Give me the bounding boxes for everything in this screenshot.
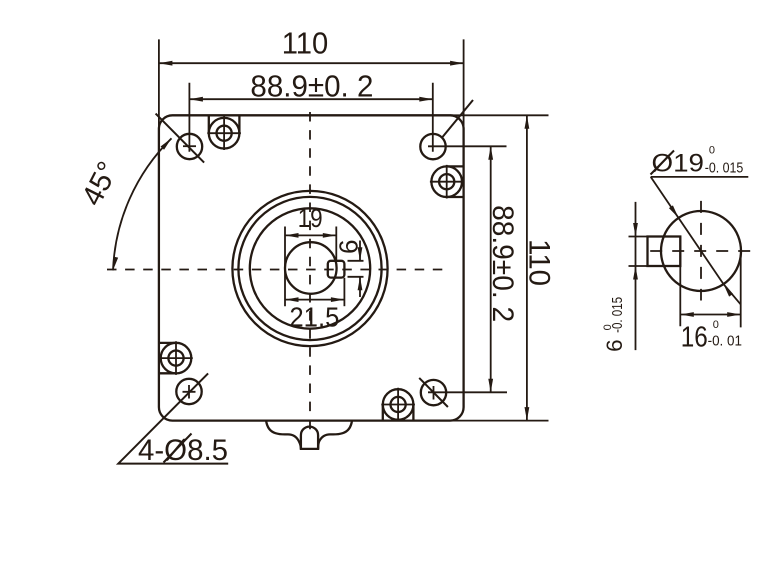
dimension 19: extension lines — [285, 227, 336, 307]
screw hole BR tangent lines — [383, 405, 414, 421]
side view vertical dashed centerline — [700, 201, 702, 301]
dimension 16: extension lines — [680, 237, 740, 328]
pilot boss outer circle — [232, 191, 387, 346]
screw hole TL outer — [209, 118, 240, 149]
bolt hole BR slash — [419, 378, 448, 407]
dimension 21.5: line — [285, 299, 344, 301]
dimension 88.9 right: extension lines through holes — [428, 146, 507, 392]
side view shaft circle — [661, 211, 741, 291]
bottom tab left wing — [266, 421, 301, 449]
svg-text:110: 110 — [282, 26, 329, 61]
bolt hole BR — [421, 380, 446, 405]
svg-text:110: 110 — [523, 239, 556, 286]
slash overlay on 0 of 4-08.5 — [164, 434, 192, 463]
svg-text:88.9±0. 2: 88.9±0. 2 — [250, 70, 373, 104]
dimension 88.9 right: line — [490, 146, 492, 392]
svg-text:16: 16 — [681, 322, 708, 354]
svg-text:21.5: 21.5 — [289, 302, 339, 333]
dia 19 text underline — [651, 176, 749, 178]
screw hole BL cross — [159, 341, 193, 375]
pilot boss second circle — [238, 197, 381, 340]
svg-text:0: 0 — [709, 144, 715, 156]
bottom tab finger — [301, 427, 318, 449]
screw hole TR outer — [431, 166, 462, 197]
screw hole TL inner — [217, 126, 232, 141]
svg-text:19: 19 — [298, 205, 323, 233]
svg-text:88.9±0. 2: 88.9±0. 2 — [486, 205, 519, 322]
dia 19 leader and diameter line — [651, 177, 741, 305]
screw hole TL tangent lines — [209, 115, 240, 133]
bolt hole TR — [420, 134, 445, 159]
bolt hole BR vertical bar — [433, 386, 435, 400]
text 88.9 right — [486, 205, 519, 322]
dimension 21.5: extension line right — [343, 278, 345, 306]
screw hole TR cross — [430, 165, 464, 199]
screw hole TR tangent lines — [447, 166, 464, 197]
screw hole BL tangent lines — [159, 343, 176, 373]
shaft circle — [285, 242, 337, 294]
keyway slot — [328, 261, 345, 278]
svg-text:-0. 015: -0. 015 — [610, 297, 626, 333]
screw hole TL cross — [207, 116, 241, 150]
bolt hole TL slash — [156, 114, 205, 163]
pilot bore circle — [250, 208, 370, 328]
dimension 110 top: extension lines — [159, 39, 464, 129]
svg-text:4-Ø8.5: 4-Ø8.5 — [138, 434, 228, 467]
dimension 110 right: extension lines — [450, 115, 549, 420]
dimension 6 keyway: extension ticks — [348, 261, 364, 277]
dimension 45 deg arc — [113, 138, 172, 270]
bolt hole TR slash — [442, 100, 473, 138]
screw hole TR inner — [439, 174, 454, 189]
screw hole BR cross — [381, 388, 415, 422]
text 110 right — [523, 239, 556, 286]
dimension 6 side: line — [635, 202, 637, 350]
text 45 deg — [75, 156, 125, 211]
dimension 110 top: line — [159, 62, 464, 64]
side view key rect — [648, 237, 681, 267]
screw hole BL inner — [168, 351, 183, 366]
side view horizontal dashed centerline — [650, 250, 752, 252]
dimension 110 right: line — [526, 115, 528, 420]
svg-text:Ø19: Ø19 — [652, 150, 705, 178]
dimension 6 keyway: arrow lines — [359, 241, 361, 298]
dimension 88.9 top: extension lines through holes — [189, 83, 432, 152]
bolt hole BL slash + leader to 4-08.5 text — [118, 373, 228, 463]
bolt hole BL — [176, 379, 201, 404]
bolt hole TL cross bar — [183, 145, 196, 147]
dimension 88.9 top: line — [189, 98, 432, 100]
dimension 16: line — [680, 314, 740, 316]
svg-text:6: 6 — [333, 240, 363, 254]
svg-text:0: 0 — [713, 319, 719, 331]
slash overlay on dia symbol — [651, 151, 675, 175]
svg-text:-0. 015: -0. 015 — [705, 160, 744, 176]
svg-text:-0. 01: -0. 01 — [708, 334, 742, 350]
plate horizontal dashed centerline — [107, 269, 445, 271]
flange plate outline — [159, 115, 464, 420]
svg-text:45°: 45° — [75, 156, 125, 211]
text 6 side with tolerance — [602, 297, 627, 352]
screw hole BR inner — [391, 397, 406, 412]
svg-text:6: 6 — [602, 339, 627, 352]
bottom tab right wing — [318, 421, 352, 449]
screw hole BR outer — [383, 389, 414, 420]
dimension 6 side: extension ticks — [629, 237, 648, 267]
plate vertical dashed centerline — [309, 112, 311, 434]
screw hole BL outer — [161, 343, 192, 374]
dimension 19: line — [285, 234, 336, 236]
bolt hole BL cross — [183, 385, 196, 399]
bolt hole TL — [177, 134, 202, 159]
text 6 keyway — [333, 240, 363, 254]
